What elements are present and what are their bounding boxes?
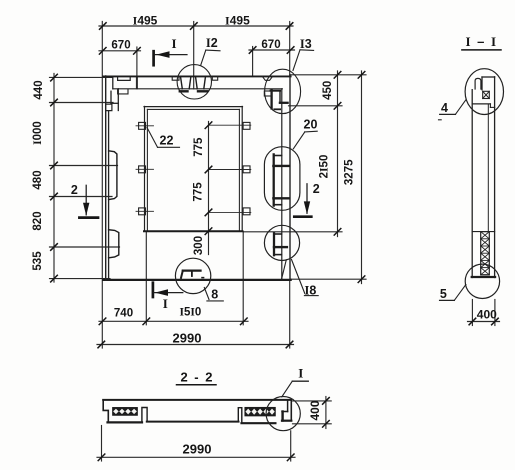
svg-text:820: 820 [32, 211, 44, 230]
2-2 left insulation key (hatched) [113, 408, 137, 415]
detail 18 channel anchor [274, 233, 287, 255]
svg-text:I000: I000 [32, 121, 44, 145]
section arrow I bottom [153, 283, 183, 297]
svg-text:22: 22 [160, 134, 174, 148]
svg-text:I: I [163, 296, 168, 311]
label 8 leader [204, 288, 223, 301]
detail 4 loop [475, 78, 481, 89]
detail capsule 20 [264, 147, 300, 211]
detail 13 tab square [264, 91, 271, 96]
I-I hatched core column [481, 232, 490, 275]
panel left corner step [111, 76, 118, 110]
label 22 leader [147, 128, 180, 148]
svg-text:300: 300 [193, 236, 205, 255]
2-2 left end profile [103, 400, 147, 423]
label 12 leader [201, 50, 220, 65]
detail 20 channel anchors [273, 154, 289, 205]
svg-text:I8: I8 [304, 283, 316, 297]
label 5 leader [440, 285, 466, 301]
section I-I title underline [462, 49, 501, 51]
panel right inner edge [281, 89, 283, 280]
window left fixing tabs 22 [136, 122, 154, 214]
detail circle 8 [175, 258, 210, 293]
tick marks top dim [100, 23, 293, 30]
svg-text:I – I: I – I [465, 34, 497, 49]
panel top edge [103, 75, 290, 77]
detail 12 anchor hooks [180, 77, 208, 91]
svg-text:440: 440 [33, 80, 45, 99]
svg-text:I5I0: I5I0 [180, 307, 202, 319]
detail 13 bracket [271, 90, 288, 109]
svg-text:2 - 2: 2 - 2 [180, 370, 214, 385]
svg-text:8: 8 [211, 288, 218, 302]
svg-text:670: 670 [111, 40, 130, 52]
svg-text:535: 535 [32, 251, 44, 271]
panel bottom edge [103, 279, 290, 281]
label I leader (2-2) [282, 381, 309, 397]
dimension line 670 right [249, 47, 295, 77]
dimension line 3275 [291, 71, 366, 284]
2-2 right insulation key (hatched) [245, 408, 275, 416]
label 13 leader [293, 50, 314, 71]
section 2-2 title underline [177, 384, 217, 386]
top edge tab left [118, 77, 131, 80]
svg-text:740: 740 [114, 308, 133, 320]
dimension line 2990 (bottom of plan) [97, 344, 294, 346]
svg-text:2I50: 2I50 [319, 155, 331, 179]
detail 4 base lines [472, 104, 494, 108]
svg-text:400: 400 [477, 308, 497, 322]
2-2 top edge [103, 399, 291, 401]
svg-text:I2: I2 [206, 36, 218, 50]
section arrow 2 right [294, 184, 311, 217]
window opening inner outline [147, 109, 239, 231]
section arrow I top [154, 51, 187, 65]
svg-text:20: 20 [304, 118, 318, 132]
svg-text:5: 5 [440, 287, 447, 301]
label 20 leader [293, 131, 317, 149]
2-2 right end profile [238, 400, 291, 423]
panel left edge small key [106, 104, 112, 110]
I-I member outline [472, 77, 494, 278]
dimension 400 (2-2) [293, 397, 332, 429]
label 4 leader [439, 100, 467, 120]
svg-text:670: 670 [261, 39, 280, 51]
dimension 2990 (2-2) [97, 426, 295, 462]
detail 8 symbol [181, 271, 204, 278]
panel left inner edge [108, 111, 110, 280]
panel left outer edge [105, 76, 107, 280]
svg-text:I495: I495 [225, 13, 250, 27]
circle 18 tail to bottom edge [282, 260, 287, 279]
svg-text:775: 775 [193, 137, 205, 157]
dimension line 775/775/300 (window) [209, 122, 251, 255]
panel left edge key 2 [109, 230, 119, 258]
svg-text:2: 2 [71, 183, 78, 197]
svg-text:2990: 2990 [173, 331, 202, 346]
section arrow 2 left [79, 185, 98, 217]
svg-text:775: 775 [192, 182, 204, 202]
2-2 bottom edge (middle) [147, 421, 239, 423]
inner top tab left [118, 90, 128, 94]
2-2 detail circle I [266, 397, 300, 431]
detail circle 12 [177, 65, 211, 99]
I-I member bottom edge [472, 276, 495, 278]
window right fixing tabs [243, 122, 250, 214]
svg-text:I: I [298, 366, 303, 381]
svg-text:480: 480 [32, 170, 44, 189]
svg-text:4: 4 [441, 101, 448, 115]
panel left edge key 1 [109, 151, 117, 200]
panel right outer edge [289, 75, 291, 280]
svg-text:I495: I495 [133, 13, 158, 27]
svg-text:I3: I3 [300, 37, 312, 51]
window opening outer outline [144, 106, 243, 231]
detail 13 notch [262, 76, 272, 80]
detail 4 hatched plate [483, 91, 490, 98]
label 18 leader [292, 260, 319, 296]
detail 12 side tabs [172, 76, 179, 80]
svg-text:2990: 2990 [183, 441, 212, 456]
right dimension column 450/2150 [243, 71, 366, 237]
detail circle 18 [264, 225, 299, 260]
dimension line 1495+1495 (top) [99, 22, 293, 349]
window bottom edge [144, 230, 243, 232]
detail circle 5 [465, 264, 499, 298]
dimension line 740+1510 (bottom) [99, 232, 248, 325]
svg-text:2: 2 [313, 182, 320, 196]
detail circle 4 [465, 69, 503, 115]
svg-text:3275: 3275 [344, 159, 356, 185]
svg-text:I: I [171, 36, 176, 51]
detail circle 13 [265, 69, 301, 113]
svg-text:400: 400 [308, 400, 322, 420]
left dimension column 440/1000/480/820/535 [50, 74, 120, 283]
dimension line 670 left [99, 47, 141, 88]
panel inner top line [113, 88, 282, 90]
dimension 400 (I-I) [468, 300, 500, 326]
svg-text:450: 450 [322, 81, 334, 100]
I-I keyed core top line [472, 231, 494, 233]
